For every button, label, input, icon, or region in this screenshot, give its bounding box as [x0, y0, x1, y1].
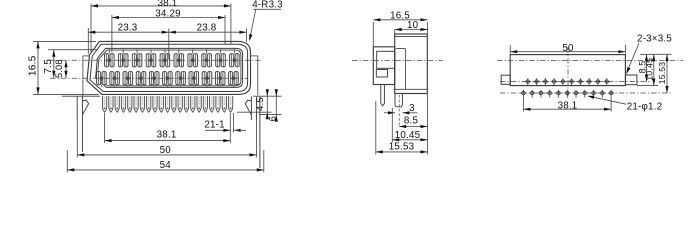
- dimension 15.53 footprint: [666, 54, 668, 93]
- side view: lower contact rect: [376, 70, 387, 78]
- dimension 23.8: [169, 31, 247, 33]
- extension line outline bottom right: [637, 85, 658, 87]
- front view: right leg hidden edge: [251, 55, 258, 57]
- dimension 38.1 top: [91, 5, 231, 7]
- svg-text:8.5: 8.5: [404, 116, 419, 127]
- extension line 50-left top: [509, 45, 511, 54]
- side view: main body block: [395, 34, 428, 94]
- centerline bottom contact row: [50, 77, 248, 79]
- side view: front mounting leg: [381, 85, 385, 106]
- extension line 10-left: [394, 30, 396, 34]
- svg-text:21-1: 21-1: [204, 119, 224, 130]
- extension line row2 footprint-right: [610, 97, 612, 112]
- svg-text:50: 50: [562, 43, 574, 54]
- top view vertical centerline: [567, 48, 569, 99]
- svg-text:6: 6: [266, 116, 277, 121]
- extension line 16.5-left side: [372, 22, 374, 46]
- svg-text:3: 3: [409, 103, 415, 114]
- dimension 38.1 bottom: [105, 140, 231, 142]
- svg-text:50: 50: [160, 145, 172, 156]
- svg-text:10: 10: [407, 20, 419, 31]
- side view: front flange: [373, 47, 394, 85]
- top view horizontal centerline: [497, 60, 683, 62]
- svg-text:5.08: 5.08: [54, 59, 64, 78]
- dimension 5.08: [65, 60, 67, 77]
- front view: outer shell outline: [87, 41, 251, 94]
- extension line center: [168, 29, 170, 60]
- side view: internal step: [396, 48, 405, 50]
- extension line 50-right: [256, 121, 258, 157]
- dimension 50 top: [510, 51, 625, 53]
- dimension 8.5 footprint: [646, 54, 648, 81]
- extension line body top-left: [33, 40, 96, 42]
- extension line 50-left: [76, 121, 78, 157]
- dimension 6: [275, 90, 277, 120]
- svg-text:10.45: 10.45: [644, 58, 654, 81]
- dimension 3 side: [384, 112, 395, 114]
- dimension 54: [67, 169, 263, 171]
- front view: base shoulder line: [62, 95, 100, 97]
- front view: left mounting leg: [77, 96, 88, 152]
- extension line 10.45-left: [391, 108, 393, 143]
- svg-text:7.5: 7.5: [43, 59, 54, 74]
- extension line leg tips-right: [259, 114, 282, 116]
- front view: bottom contact row (11 contacts): [97, 72, 107, 85]
- svg-text:2-3×3.5: 2-3×3.5: [637, 34, 672, 45]
- svg-text:23.3: 23.3: [118, 22, 138, 33]
- extension line 15.53-left: [375, 101, 377, 155]
- side view: bottom internal line: [394, 88, 428, 90]
- front view: inner shell line: [90, 44, 248, 91]
- front view: right mounting leg: [245, 96, 260, 168]
- extension line base shoulder-right: [253, 95, 282, 97]
- front view: cavity inner line: [97, 50, 241, 86]
- svg-text:23.8: 23.8: [197, 22, 217, 33]
- front view: cavity outline: [96, 48, 243, 87]
- dimension 10 side: [395, 29, 428, 31]
- extension line 54-right: [263, 150, 265, 172]
- dimension 8.5 side: [399, 126, 427, 128]
- extension line cavity-top-left: [48, 49, 97, 51]
- dimension 7.5: [53, 50, 55, 78]
- extension line back edge: [427, 22, 429, 34]
- dimension 10.45 footprint: [653, 54, 655, 85]
- front view: top contact row (10 contacts): [105, 54, 115, 67]
- extension line 54-left: [66, 150, 68, 172]
- svg-text:38.1: 38.1: [157, 130, 177, 141]
- dimension 16.5: [37, 41, 39, 94]
- dimension 4.5: [266, 90, 268, 117]
- extension line pin21: [229, 113, 231, 143]
- top view row2 centerline: [500, 92, 671, 94]
- svg-text:38.1: 38.1: [558, 100, 578, 111]
- svg-text:4.5: 4.5: [254, 97, 265, 111]
- top view: hole row 2 (11 holes): [520, 90, 527, 98]
- top view: hole row 1 (10 holes): [524, 78, 531, 86]
- svg-text:21-φ1.2: 21-φ1.2: [627, 101, 663, 112]
- extension line 21-1 right: [233, 113, 235, 133]
- front view: left leg hidden edge: [83, 55, 89, 57]
- extension line 34.29-right: [224, 15, 226, 44]
- side view centerline: [352, 59, 443, 61]
- extension line 23.3-left: [87, 28, 89, 54]
- dimension 23.3: [88, 31, 169, 33]
- extension line 34.29-left: [111, 15, 113, 52]
- top view row1 centerline: [500, 81, 651, 83]
- side view: solder pin: [395, 94, 402, 107]
- side view: top rib line: [395, 36, 428, 38]
- side view: cavity rect: [377, 51, 395, 68]
- svg-text:10.45: 10.45: [395, 130, 421, 141]
- centerline top contact row: [50, 59, 262, 61]
- dimension 34.29: [112, 17, 225, 19]
- dimension 38.1 footprint: [523, 108, 611, 110]
- top view: body outline: [510, 55, 625, 86]
- svg-text:16.5: 16.5: [27, 55, 38, 76]
- extension line pin1: [104, 113, 106, 143]
- extension line row2 footprint-left: [522, 97, 524, 112]
- dimension 15.53 side: [376, 151, 428, 153]
- top view: left slot: [501, 75, 510, 84]
- dimension 10.45 side: [392, 139, 427, 141]
- side view: pin hidden centerline: [398, 95, 400, 127]
- extension line pin tips-right: [237, 111, 272, 113]
- extension line 38.1-right: [230, 4, 232, 45]
- extension line body bottom-left: [33, 93, 99, 95]
- svg-text:54: 54: [160, 160, 172, 171]
- svg-text:34.29: 34.29: [155, 9, 181, 20]
- dimension 16.5 side: [373, 19, 427, 21]
- extension line 23.8-right: [245, 29, 247, 43]
- extension line right dims top: [640, 53, 672, 55]
- extension line 38.1-left: [90, 4, 92, 53]
- extension line 50-right top: [624, 45, 626, 54]
- svg-text:15.53: 15.53: [657, 62, 667, 85]
- front view: 21 solder pins: [102, 96, 106, 112]
- dimension 50 front: [77, 154, 256, 156]
- svg-text:15.53: 15.53: [389, 141, 415, 152]
- top view: right slot: [625, 75, 637, 85]
